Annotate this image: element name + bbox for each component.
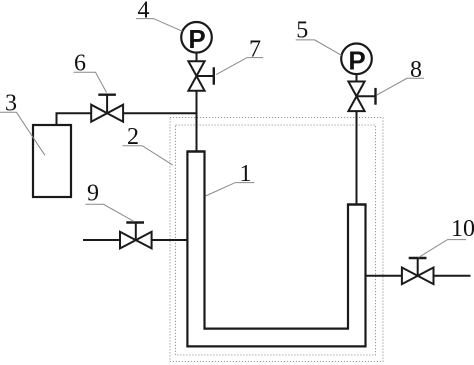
wire U-tube right wall to valve 10 — [366, 275, 403, 277]
pressure gauge 4 — [181, 22, 212, 54]
wire tank riser — [56, 113, 58, 125]
U-tube left top cap — [186, 150, 205, 153]
svg-text:8: 8 — [410, 57, 422, 83]
wire valve 7 to U-tube top — [196, 92, 198, 152]
wire valve 10 to outlet — [434, 275, 471, 277]
insulation box 2 (outer dashed rectangle) — [170, 118, 383, 362]
label 6 — [73, 51, 106, 93]
label 4 — [136, 0, 183, 31]
U-tube 1 outer wall — [187, 152, 365, 347]
wire left inlet to valve 9 — [83, 239, 120, 241]
label 7 — [216, 37, 263, 75]
U-tube right top cap — [347, 203, 367, 206]
insulation box 2 (inner dashed rectangle) — [176, 125, 376, 355]
valve 6 — [91, 95, 123, 122]
valve 7 — [188, 61, 213, 91]
wire tank to valve 6 — [56, 112, 92, 114]
svg-text:P: P — [188, 24, 205, 54]
valve 10 — [402, 258, 434, 284]
label 5 — [296, 18, 342, 56]
wire valve 6 to node A — [124, 112, 197, 114]
svg-text:9: 9 — [87, 180, 99, 206]
wire valve 8 to U-tube right top — [356, 112, 358, 205]
wire gauge 5 stem — [356, 74, 358, 82]
valve 8 — [348, 82, 375, 112]
svg-text:4: 4 — [138, 0, 150, 24]
pressure gauge 5 — [341, 44, 372, 76]
svg-text:10: 10 — [451, 216, 474, 242]
valve 9 — [120, 223, 152, 249]
label 2 — [122, 124, 172, 165]
U-tube 1 inner wall — [205, 152, 349, 329]
wire valve 9 to U-tube left wall — [152, 239, 188, 241]
label 10 — [419, 216, 474, 257]
label 3 — [0, 90, 45, 155]
svg-text:P: P — [348, 46, 365, 76]
label 9 — [85, 180, 133, 221]
label 1 — [206, 161, 255, 196]
wire gauge 4 stem — [196, 53, 198, 62]
tank 3 — [33, 125, 71, 197]
label 8 — [377, 57, 424, 95]
svg-text:7: 7 — [249, 37, 261, 63]
